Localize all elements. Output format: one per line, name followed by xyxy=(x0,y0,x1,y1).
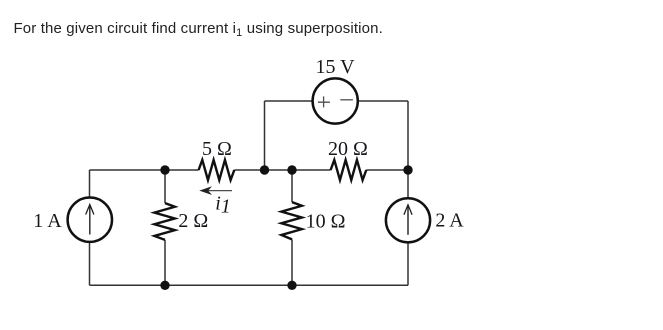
svg-text:1 A: 1 A xyxy=(33,210,62,232)
svg-text:2 Ω: 2 Ω xyxy=(178,210,208,232)
wire top right horizontal from 15V source xyxy=(358,100,408,102)
title text xyxy=(14,20,383,37)
svg-text:15 V: 15 V xyxy=(315,56,355,78)
svg-text:2 A: 2 A xyxy=(435,209,464,231)
wire middle segment node A to 5ohm xyxy=(165,169,199,171)
junction dot right node xyxy=(403,165,412,174)
wire left branch upper vertical xyxy=(89,170,91,198)
wire right branch top vertical xyxy=(407,101,409,170)
wire middle segment 5ohm to riser node xyxy=(234,169,264,171)
svg-text:20 Ω: 20 Ω xyxy=(328,138,368,160)
wire bottom horizontal xyxy=(90,284,409,286)
resistor 5 ohm zigzag xyxy=(199,160,235,180)
current source 1 A circle xyxy=(68,198,112,242)
junction dot node A middle xyxy=(160,165,169,174)
voltage source minus sign xyxy=(340,99,353,101)
label 20 ohm xyxy=(328,138,368,160)
junction dot node B bottom xyxy=(287,281,296,290)
current source 2 A circle xyxy=(386,198,430,242)
current arrow i1 under 5 ohm xyxy=(199,186,232,195)
wire middle segment 1A to node A xyxy=(90,169,166,171)
wire 2ohm top lead xyxy=(164,170,166,203)
voltage source plus sign xyxy=(318,96,330,107)
wire 10ohm bottom lead xyxy=(291,239,293,285)
resistor 2 ohm zigzag xyxy=(154,203,175,240)
junction dot riser node xyxy=(260,165,269,174)
label 5 ohm xyxy=(202,138,232,160)
wire middle segment 20ohm to right node xyxy=(366,169,408,171)
wire right branch middle vertical xyxy=(407,170,409,198)
resistor 20 ohm zigzag xyxy=(331,160,367,180)
wire middle segment riser node to node B xyxy=(265,169,293,171)
wire 2ohm bottom lead xyxy=(164,240,166,285)
wire middle segment node B to 20ohm xyxy=(292,169,331,171)
label 2 A xyxy=(435,209,464,231)
resistor 10 ohm zigzag xyxy=(281,202,302,239)
wire riser vertical to top loop xyxy=(264,101,266,170)
voltage source 15 V circle xyxy=(313,78,358,123)
wire right branch lower vertical xyxy=(407,242,409,285)
current source 1 A arrow xyxy=(86,205,94,235)
wire 10ohm top lead xyxy=(291,170,293,202)
svg-text:10 Ω: 10 Ω xyxy=(306,211,346,233)
junction dot node A bottom xyxy=(160,281,169,290)
svg-text:1: 1 xyxy=(221,196,231,218)
label i1 xyxy=(215,193,231,218)
label 1 A xyxy=(33,210,62,232)
wire top left horizontal to 15V source xyxy=(265,100,313,102)
wire left branch lower vertical xyxy=(89,242,91,285)
label 15 V xyxy=(315,56,355,78)
svg-text:5 Ω: 5 Ω xyxy=(202,138,232,160)
current source 2 A arrow xyxy=(404,205,412,235)
label 2 ohm xyxy=(178,210,208,232)
label 10 ohm xyxy=(306,211,346,233)
junction dot node B middle xyxy=(287,165,296,174)
